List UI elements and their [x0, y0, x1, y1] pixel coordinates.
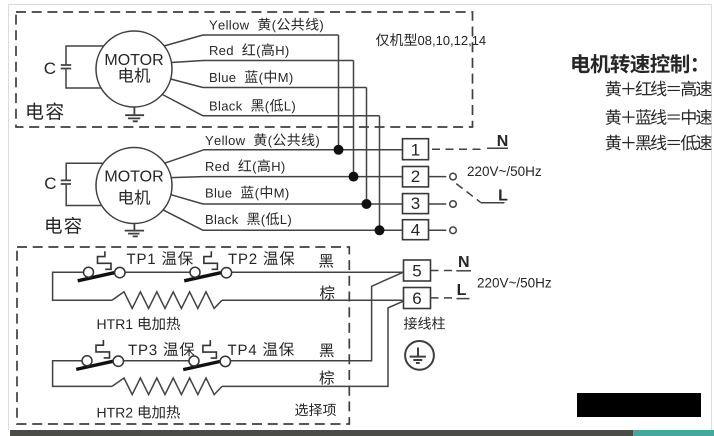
- svg-text:220V~/50Hz: 220V~/50Hz: [477, 276, 552, 291]
- svg-text:N: N: [458, 254, 470, 271]
- svg-text:3: 3: [411, 194, 420, 213]
- svg-text:220V~/50Hz: 220V~/50Hz: [467, 164, 542, 179]
- svg-text:MOTOR: MOTOR: [104, 169, 163, 186]
- svg-text:C: C: [44, 59, 56, 78]
- svg-text:4: 4: [411, 220, 420, 239]
- svg-text:2: 2: [411, 167, 420, 186]
- svg-text:1: 1: [411, 140, 420, 159]
- svg-text:6: 6: [412, 289, 421, 308]
- svg-text:L: L: [457, 282, 467, 299]
- svg-text:L: L: [498, 188, 508, 205]
- svg-text:MOTOR: MOTOR: [104, 52, 163, 69]
- svg-text:C: C: [44, 174, 56, 193]
- svg-text:N: N: [497, 133, 509, 150]
- svg-text:5: 5: [412, 262, 421, 281]
